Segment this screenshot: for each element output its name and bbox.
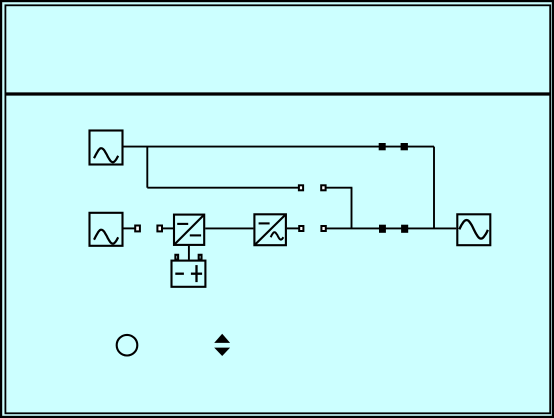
legend up triangle — [214, 334, 230, 343]
connector square (input pair left) — [135, 226, 140, 232]
legend down triangle — [214, 348, 230, 356]
wire: branch drop from bypass line — [146, 147, 148, 188]
connector square (bypass branch right) — [321, 185, 325, 190]
connector square (inverter output right) — [321, 226, 325, 231]
connector square (input pair right) — [157, 226, 162, 232]
rectifier/charger converter — [174, 215, 204, 245]
wire: drop to output bus — [351, 188, 353, 229]
wire: branch horizontal to connector pair — [147, 187, 298, 189]
load (AC output) — [457, 214, 490, 245]
wire: bypass line drop to output bus — [433, 147, 435, 229]
wire: bypass source output to bypass switch line — [124, 146, 435, 148]
wire: inverter to output connector — [287, 227, 299, 229]
wire: input connector to rectifier — [163, 227, 174, 229]
wire: rectifier to inverter DC link — [205, 227, 253, 229]
AC source 1 (bypass input) — [90, 131, 123, 165]
AC source 2 (main input) — [90, 213, 123, 246]
connector square (inverter output left) — [299, 226, 303, 231]
closed switch contact (output bus, right) — [401, 225, 408, 233]
battery — [172, 255, 206, 287]
inverter converter — [254, 214, 286, 245]
header divider line — [5, 92, 550, 95]
wire: main source to input connector — [124, 227, 136, 229]
legend circle symbol — [117, 335, 138, 356]
wire: output connector to load bus — [326, 227, 456, 229]
closed switch contact (bypass line, right) — [401, 143, 408, 150]
connector square (bypass branch left) — [299, 185, 303, 190]
closed switch contact (output bus, left) — [379, 225, 386, 233]
wire: rectifier to battery — [188, 246, 190, 260]
closed switch contact (bypass line, left) — [379, 143, 386, 150]
wire: connector pair to drop — [326, 187, 352, 189]
